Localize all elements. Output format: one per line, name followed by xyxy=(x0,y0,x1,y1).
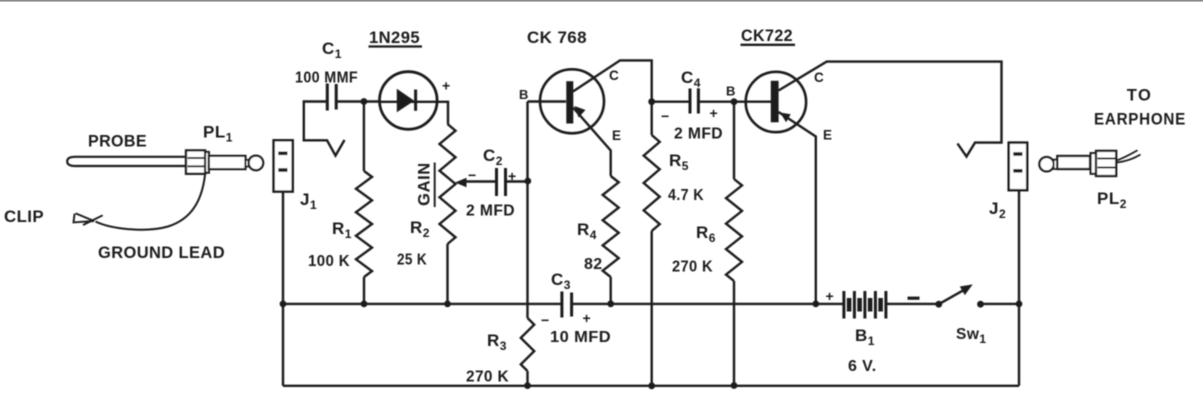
svg-text:10 MFD: 10 MFD xyxy=(550,329,611,346)
svg-text:TO: TO xyxy=(1127,87,1153,105)
svg-text:4.7 K: 4.7 K xyxy=(668,187,704,204)
svg-text:C: C xyxy=(814,70,824,85)
svg-text:2 MFD: 2 MFD xyxy=(466,203,515,220)
svg-text:−: − xyxy=(661,108,670,124)
svg-text:PROBE: PROBE xyxy=(88,132,147,151)
svg-text:+: + xyxy=(442,78,451,94)
svg-text:EARPHONE: EARPHONE xyxy=(1094,111,1186,129)
svg-text:C: C xyxy=(609,68,619,83)
svg-text:E: E xyxy=(823,128,832,143)
svg-text:82: 82 xyxy=(584,256,603,273)
svg-text:−: − xyxy=(541,312,550,328)
svg-text:B: B xyxy=(726,84,736,99)
svg-text:1N295: 1N295 xyxy=(369,29,420,47)
svg-text:−: − xyxy=(468,167,477,183)
svg-text:GAIN: GAIN xyxy=(416,162,434,206)
svg-text:270 K: 270 K xyxy=(466,369,509,386)
svg-text:CK 768: CK 768 xyxy=(527,29,587,47)
svg-text:100 MMF: 100 MMF xyxy=(295,70,358,87)
svg-text:E: E xyxy=(612,128,621,143)
svg-text:+: + xyxy=(583,310,592,326)
svg-text:+: + xyxy=(710,105,719,121)
svg-text:+: + xyxy=(826,288,835,304)
svg-text:100 K: 100 K xyxy=(308,253,350,270)
svg-text:6 V.: 6 V. xyxy=(848,358,877,375)
svg-text:B: B xyxy=(519,87,529,102)
svg-text:+: + xyxy=(508,168,517,184)
svg-text:2 MFD: 2 MFD xyxy=(674,126,723,143)
svg-text:CK722: CK722 xyxy=(741,27,793,45)
svg-text:25 K: 25 K xyxy=(397,252,427,269)
svg-text:CLIP: CLIP xyxy=(4,207,44,226)
svg-text:270 K: 270 K xyxy=(672,259,713,276)
svg-text:GROUND LEAD: GROUND LEAD xyxy=(98,243,225,262)
